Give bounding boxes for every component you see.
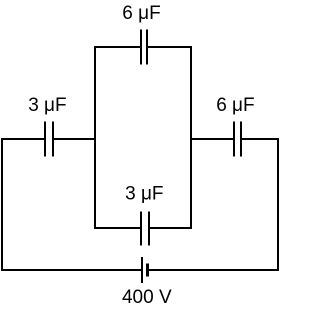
wire: inner box bottom segment (left to C4) xyxy=(94,227,141,229)
svg-text:6 μF: 6 μF xyxy=(122,3,160,24)
wire: top-right horizontal segment (C3 to right rail) xyxy=(241,138,279,140)
value label: 6 uF (capacitor C1) xyxy=(122,3,160,24)
wire: top-left horizontal segment (left rail to C2) xyxy=(1,138,45,140)
wire: inner box right branch (vertical, node B) xyxy=(190,46,192,229)
value label: 6 uF (capacitor C3) xyxy=(216,95,254,116)
value label: 3 uF (capacitor C4) xyxy=(125,184,163,205)
wire: inner box left branch (vertical, node A) xyxy=(94,46,96,229)
svg-text:3 μF: 3 μF xyxy=(28,95,66,116)
wire: inner box top segment (left to C1) xyxy=(94,46,140,48)
wire: bottom segment (battery V1 to right rail) xyxy=(148,269,279,271)
capacitor C3 (6 uF, right) plates xyxy=(234,122,241,157)
value label: 400 V (battery V1) xyxy=(122,287,172,308)
capacitor C2 (3 uF, left) plates xyxy=(45,122,53,157)
capacitor C4 (3 uF, bottom branch) plates xyxy=(141,212,149,246)
svg-text:6 μF: 6 μF xyxy=(216,95,254,116)
wire: horizontal segment (inner box right node to C3) xyxy=(190,138,234,140)
svg-text:3 μF: 3 μF xyxy=(125,184,163,205)
battery V1 (400 V): long positive plate xyxy=(141,257,143,283)
battery V1 (400 V): short negative plate xyxy=(146,264,149,277)
wire: horizontal segment (C2 to inner box left node) xyxy=(53,138,96,140)
wire: inner box top segment (C1 to right) xyxy=(148,46,192,48)
wire: bottom segment (left rail to battery V1) xyxy=(1,269,141,271)
wire: inner box bottom segment (C4 to right) xyxy=(149,227,192,229)
value label: 3 uF (capacitor C2) xyxy=(28,95,66,116)
capacitor C1 (6 uF, top branch) plates xyxy=(141,30,147,65)
svg-text:400 V: 400 V xyxy=(122,287,172,308)
wire: right outer rail (vertical) xyxy=(277,138,279,271)
wire: left outer rail (vertical) xyxy=(1,138,3,271)
